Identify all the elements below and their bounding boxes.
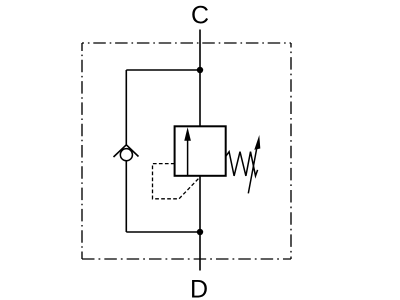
check valve CV1 seat: [114, 145, 139, 157]
wire C to top junction: [199, 30, 201, 71]
wire valve outlet to bottom junction: [199, 176, 201, 232]
wire bottom junction to D: [199, 232, 201, 271]
pilot line (dashed): [153, 164, 201, 199]
wire left branch upper vertical: [125, 70, 127, 145]
wire top branch to left: [126, 69, 200, 71]
wire top junction to valve inlet: [199, 70, 201, 126]
svg-text:D: D: [190, 276, 208, 300]
spring (adjustable): [226, 152, 258, 176]
relief valve V1 body: [175, 126, 226, 176]
svg-text:C: C: [191, 2, 209, 30]
adjustment arrow across spring: [248, 135, 260, 193]
wire bottom branch to right: [126, 231, 200, 233]
junction node bottom: [197, 229, 203, 235]
check valve CV1 ball: [120, 149, 132, 161]
wire left branch lower vertical: [125, 161, 127, 232]
enclosure boundary (dash-dot envelope): [82, 43, 291, 259]
relief valve V1 flow arrow: [184, 127, 191, 176]
junction node top: [197, 67, 203, 73]
